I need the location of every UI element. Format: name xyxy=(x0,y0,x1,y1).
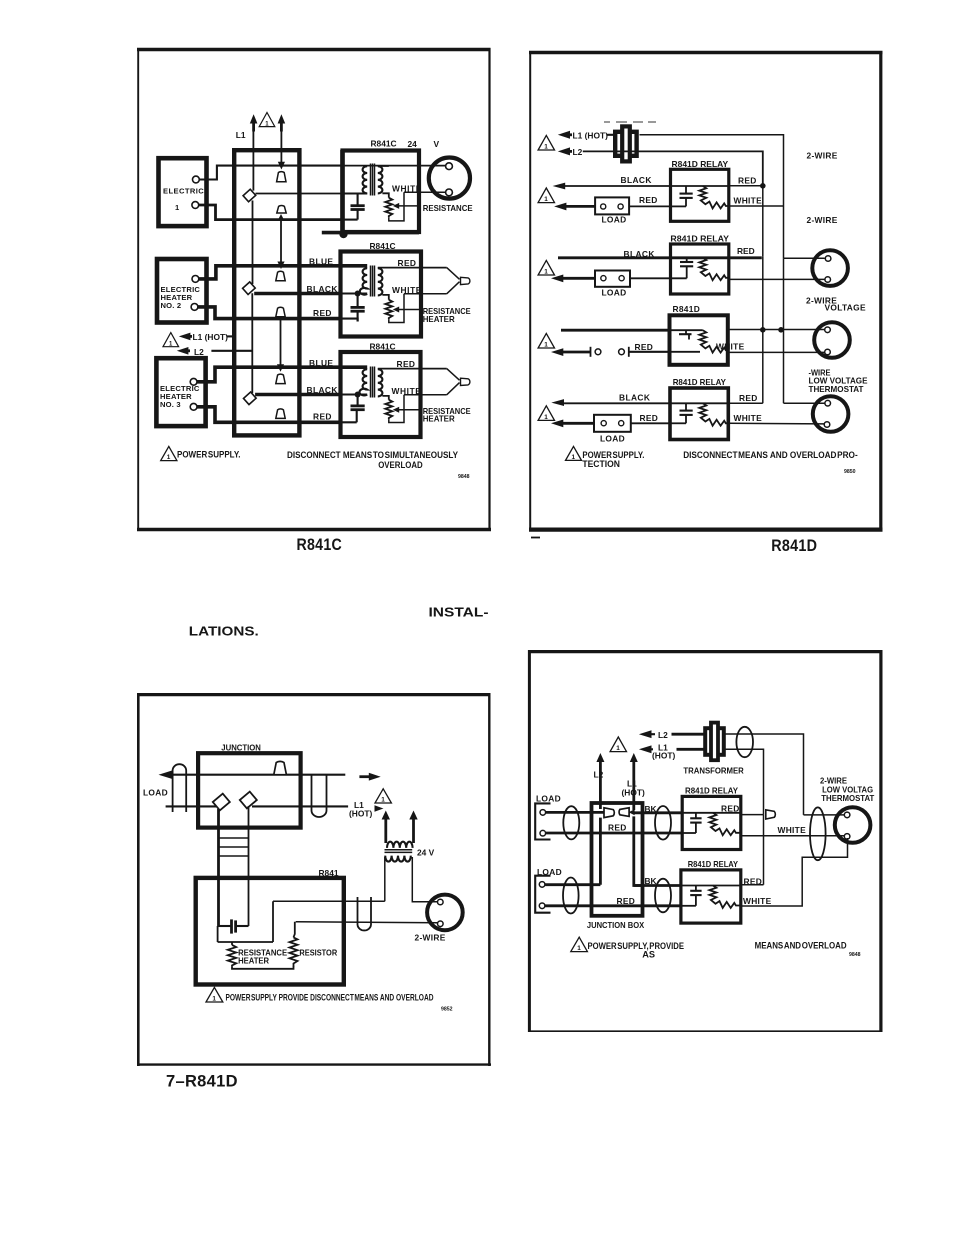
svg-text:WHITE: WHITE xyxy=(392,183,422,193)
relay1 internal red-in wire xyxy=(671,205,687,207)
wire secondary bottom to resistor1 xyxy=(382,193,388,197)
label RESISTANCE HEATER row2 xyxy=(423,306,471,324)
wire L2 to transformer panel4 xyxy=(672,733,705,736)
cable loop thermostat panel4 xyxy=(810,807,826,860)
svg-text:1: 1 xyxy=(572,454,576,461)
svg-text:9852: 9852 xyxy=(441,1007,453,1013)
wire white out row2 xyxy=(404,293,447,295)
load2 upper wire to nut1 drop xyxy=(545,883,600,886)
relay1 p4 internal top wire xyxy=(682,812,741,814)
svg-text:1: 1 xyxy=(544,269,548,276)
transformer T3 core xyxy=(371,367,375,398)
svg-text:RED: RED xyxy=(313,308,332,318)
diagonal wire nut A panel3 xyxy=(213,794,230,811)
svg-text:BLUE: BLUE xyxy=(309,358,333,368)
arrow left top wire xyxy=(159,771,199,779)
label 2-WIRE LOW VOLTAG THERMOSTAT panel4 xyxy=(820,775,875,802)
electric heater no.1 box xyxy=(159,158,207,226)
svg-text:LATIONS.: LATIONS. xyxy=(189,625,259,639)
wire nut at rail A4 xyxy=(766,810,776,819)
capacitor relay2 p4 xyxy=(690,886,701,906)
cable loop load2 panel4 xyxy=(563,878,579,914)
svg-text:TRANSFORMER: TRANSFORMER xyxy=(683,765,743,775)
svg-text:RED: RED xyxy=(608,823,627,833)
svg-text:POWER SUPPLY.: POWER SUPPLY. xyxy=(177,450,241,460)
top wire through junction box xyxy=(198,774,345,776)
svg-text:1: 1 xyxy=(212,996,216,1003)
wire L1 to line transformer xyxy=(607,134,615,136)
cable loop left xyxy=(173,764,187,812)
nut2 drop to BK2 wire xyxy=(634,816,643,885)
internal rail below capacitor xyxy=(218,901,273,942)
transformer T2 primary coil xyxy=(360,268,367,295)
svg-text:WHITE: WHITE xyxy=(716,342,745,352)
thermostat1 terminal lower xyxy=(825,277,831,283)
wire resistor3 bottom loop to white xyxy=(389,395,404,423)
wire L1 to transformer panel4 xyxy=(677,748,705,751)
wire upper out of R841 to transformer xyxy=(273,900,385,902)
heater no.1 terminal T1 xyxy=(193,176,200,183)
wire red out relay3 to thermostat2 upper xyxy=(728,329,825,331)
label 2-WIRE LOW VOLTAGE THERMOSTAT xyxy=(809,368,868,394)
wire rail B4 to thermostat upper xyxy=(804,814,845,816)
svg-text:LOAD: LOAD xyxy=(602,287,627,297)
resistance heater R2 zigzag xyxy=(385,300,392,320)
svg-text:24 V: 24 V xyxy=(417,847,435,857)
wire heater1 lower to row1 bottom xyxy=(199,205,342,220)
wire resistor bottoms join xyxy=(232,966,294,969)
rail B segment to thermostat1 upper xyxy=(784,257,825,259)
svg-text:OVERLOAD: OVERLOAD xyxy=(378,460,423,470)
wire nut on red row3 xyxy=(276,409,285,419)
svg-text:RED: RED xyxy=(617,896,636,906)
cable loop right panel3 xyxy=(312,775,327,817)
svg-text:L1 (HOT): L1 (HOT) xyxy=(193,332,229,342)
rail A4 down to relay2 red xyxy=(763,814,765,884)
label RESISTANCE HEATER row3 xyxy=(423,406,471,424)
warning triangle top xyxy=(538,135,554,150)
wire nut 2 panel4 (points left) xyxy=(619,808,629,817)
svg-text:L2: L2 xyxy=(658,730,668,740)
wire black row1 with arrow xyxy=(553,183,671,190)
wire row1 bottom inside relay to capacitor xyxy=(342,219,358,221)
wire nut 1 panel4 (points right) xyxy=(604,808,614,818)
wiper arrow into resistor1 xyxy=(393,203,421,209)
thermostat terminal lower xyxy=(446,189,453,196)
figure frame panel 3 (7-R841D) xyxy=(137,693,491,1066)
load box row2 xyxy=(595,271,630,287)
svg-text:TECTION: TECTION xyxy=(582,459,620,469)
wire nut A drop to R841 xyxy=(217,809,220,926)
wire blue row2 into relay2 xyxy=(340,264,367,268)
disconnect plug row3 xyxy=(591,347,670,357)
svg-text:R841C: R841C xyxy=(370,241,396,251)
svg-text:R841D: R841D xyxy=(673,304,701,314)
R841D relay 2 box panel4 xyxy=(681,870,741,923)
wire heater3 upper to blue row3 xyxy=(197,367,340,382)
junction dot rail A red1 xyxy=(760,183,766,189)
warning triangle panel4 xyxy=(610,737,626,752)
svg-text:POWER SUPPLY PROVIDE DISCONNEC: POWER SUPPLY PROVIDE DISCONNECT MEANS AN… xyxy=(226,992,434,1002)
wire secondary2 bottom to resistor2 xyxy=(382,295,388,300)
secondary lead left down xyxy=(384,857,386,901)
warning triangle row2 xyxy=(538,260,554,275)
load box row4 xyxy=(594,415,631,432)
svg-text:RED: RED xyxy=(398,258,417,268)
transformer T1 core xyxy=(371,164,375,196)
transformer secondary coil panel3 xyxy=(385,856,411,862)
arrow load row2 xyxy=(551,275,595,283)
wire black row2 from diag nut to relay2 xyxy=(254,292,340,296)
cable loop load1 panel4 xyxy=(563,806,579,839)
diagonal wire nut row3 xyxy=(243,392,256,405)
R841D relay 1 box panel4 xyxy=(682,796,741,849)
warning triangle caption panel2 xyxy=(566,446,582,461)
wire BK1 from L1 drop to relay1 xyxy=(634,811,682,814)
line transformer inner core xyxy=(622,126,630,161)
svg-text:(HOT): (HOT) xyxy=(652,750,675,760)
wire L1 drop to wire nut row1 xyxy=(252,132,254,191)
thermostat3 terminal upper panel3 xyxy=(438,899,444,905)
resistance heater R3 zigzag xyxy=(385,400,392,420)
relay4 internal top wire xyxy=(670,402,728,404)
wire black row4 with arrow xyxy=(551,399,670,406)
capacitor panel3 (horizontal) xyxy=(219,919,249,933)
wire transformer lower out to rail A4 xyxy=(725,749,764,814)
wire load row2 to relay2 capacitor xyxy=(630,277,687,279)
svg-text:(HOT): (HOT) xyxy=(349,808,372,818)
svg-text:ELECTRIC: ELECTRIC xyxy=(163,187,204,196)
load1 upper wire xyxy=(546,811,604,814)
transformer T1 secondary coil xyxy=(378,166,383,193)
wire white out row3 xyxy=(404,394,447,396)
svg-text:WHITE: WHITE xyxy=(734,413,763,423)
thermostat 2 circle 2-wire voltage xyxy=(814,322,850,358)
thermostat2 terminal upper xyxy=(825,327,831,333)
heater no.1 terminal T2 xyxy=(192,202,199,209)
wire secondary3 bottom to resistor3 xyxy=(382,396,388,400)
warning triangle 1 top xyxy=(259,113,275,128)
junction dot black-capacitor row3 xyxy=(355,392,361,398)
arrow L1 hot panel4 xyxy=(639,745,653,753)
svg-text:(HOT): (HOT) xyxy=(622,787,645,797)
arrow L1 hot xyxy=(558,131,572,139)
diagonal wire nut B panel3 xyxy=(240,792,257,809)
svg-text:R841C: R841C xyxy=(370,342,396,352)
transformer T3 primary coil xyxy=(359,369,367,395)
relay3 lower-in internal wire xyxy=(670,351,701,353)
cable rungs between junction and R841 xyxy=(219,838,249,856)
wire blue row3 into relay3 xyxy=(340,365,367,369)
thermostat3 terminal lower panel3 xyxy=(438,921,444,927)
relay coil resistor relay1 L-shape xyxy=(699,186,728,208)
2wire cable flag row2 xyxy=(447,268,470,294)
diagonal wire nut row2 xyxy=(243,282,256,295)
svg-text:WHITE: WHITE xyxy=(734,196,763,206)
capacitor C3 xyxy=(351,395,365,423)
capacitor relay1 p4 xyxy=(690,813,701,833)
svg-text:24: 24 xyxy=(408,139,418,149)
label L1 (HOT) panel3 xyxy=(349,800,372,818)
wire nut on row1 top wire xyxy=(277,172,286,182)
white2 riser path to thermostat lower xyxy=(741,838,848,906)
thermostat terminal upper xyxy=(446,163,453,170)
svg-text:R841D RELAY: R841D RELAY xyxy=(685,785,738,795)
svg-text:WHITE: WHITE xyxy=(392,285,422,295)
capacitor C2 xyxy=(351,294,365,322)
thermostat 1 circle 2-wire xyxy=(812,250,848,286)
wire white out relay4 to thermostat3 lower xyxy=(728,422,824,425)
capacitor relay4 xyxy=(680,403,693,423)
2wire cable flag row3 xyxy=(447,369,470,395)
svg-text:RED: RED xyxy=(721,804,740,814)
thermostat2 terminal lower xyxy=(825,349,831,355)
transformer core panel3 xyxy=(385,850,413,853)
heater no.3 terminal T2 xyxy=(190,403,197,410)
arrow into nut2 from L1 drop xyxy=(629,809,635,815)
warning triangle caption panel3 xyxy=(206,987,223,1002)
svg-text:9848: 9848 xyxy=(458,474,470,480)
svg-text:BK: BK xyxy=(645,804,657,814)
arrow load row1 xyxy=(554,203,595,211)
warning triangle panel3 xyxy=(375,789,391,804)
wire black row3 inside relay xyxy=(340,393,367,395)
wire white out relay1 to rail B xyxy=(729,205,784,207)
rail A down to row4 xyxy=(762,257,764,403)
warning triangle row3 xyxy=(538,333,554,348)
svg-text:BLACK: BLACK xyxy=(307,385,338,395)
svg-text:V: V xyxy=(434,139,440,149)
figure frame panel 2 (R841D) xyxy=(529,51,883,531)
arrow L2 top panel4 xyxy=(639,730,655,738)
svg-text:THERMOSTAT: THERMOSTAT xyxy=(809,384,865,394)
line transformer outer shell xyxy=(615,132,636,156)
svg-text:DISCONNECT MEANS AND OVERLOAD: DISCONNECT MEANS AND OVERLOAD PRO- xyxy=(683,450,858,460)
wire red row1 load to relay xyxy=(629,205,670,207)
svg-text:JUNCTION BOX: JUNCTION BOX xyxy=(587,920,645,930)
thermostat1 terminal upper xyxy=(825,256,831,262)
wire white out relay2 to thermostat1 xyxy=(729,278,825,280)
rail B down to row4 xyxy=(783,330,785,403)
svg-text:1: 1 xyxy=(175,203,180,212)
thermostat p4 terminal lower xyxy=(844,834,850,840)
svg-text:WHITE: WHITE xyxy=(743,896,772,906)
wire red out relay1 p4 to rail xyxy=(741,814,764,816)
svg-text:2-WIRE: 2-WIRE xyxy=(807,215,838,225)
stray mark below panel 2 frame xyxy=(531,537,540,539)
electric heater no.3 box xyxy=(156,358,205,426)
thermostat3 terminal lower xyxy=(824,422,830,428)
wire red out row2 (secondary top) xyxy=(378,267,447,269)
svg-text:L1: L1 xyxy=(236,130,246,140)
wire black row3 from diag nut to relay3 xyxy=(255,393,340,397)
wire nut row1 lower xyxy=(277,205,286,213)
up arrow L1 drop panel4 xyxy=(630,753,638,810)
svg-text:NO. 3: NO. 3 xyxy=(160,400,181,409)
cable loop at transformer panel4 xyxy=(736,727,753,757)
capacitor relay1 xyxy=(680,186,693,206)
junction box panel4 xyxy=(592,803,643,916)
junction dot rail A row3 xyxy=(760,327,766,333)
wire white out relay3 to thermostat2 lower xyxy=(728,351,825,353)
cable loop at R841 exit xyxy=(358,897,372,930)
svg-text:INSTAL-: INSTAL- xyxy=(429,606,489,620)
electric heater no.2 box xyxy=(157,259,207,323)
svg-text:THERMOSTAT: THERMOSTAT xyxy=(821,793,875,803)
junction box bottom edge xyxy=(0,0,1,1)
label RESISTANCE HEATER panel3 xyxy=(238,948,287,966)
transformer T3 secondary coil xyxy=(378,369,383,396)
resistor panel3 zigzag xyxy=(290,922,298,967)
svg-text:RED: RED xyxy=(397,359,416,369)
relay2 p4 internal top wire xyxy=(681,885,741,887)
diagonal wire nut row1 xyxy=(243,189,256,202)
svg-text:1: 1 xyxy=(616,745,620,752)
svg-text:1: 1 xyxy=(544,342,548,349)
wire red out row3 (secondary top) xyxy=(378,368,447,370)
lower wire from left xyxy=(166,805,216,807)
wire black row2 through relay2 to rail A xyxy=(558,256,762,259)
svg-text:R841D: R841D xyxy=(771,537,817,555)
arrow L2 feed xyxy=(177,347,190,355)
wire black row2 inside relay xyxy=(340,292,367,294)
svg-text:LOAD: LOAD xyxy=(602,215,627,225)
wire black row3 into relay3 xyxy=(561,329,670,332)
R841 box xyxy=(196,878,344,985)
svg-text:R841D RELAY: R841D RELAY xyxy=(673,377,727,387)
svg-text:L1 (HOT): L1 (HOT) xyxy=(573,130,609,140)
wire nut drop link row1 to row2 xyxy=(277,214,284,269)
svg-text:RED: RED xyxy=(737,246,755,256)
transformer primary coil panel3 xyxy=(387,842,413,848)
transformer T1 primary coil xyxy=(363,166,368,193)
svg-text:1: 1 xyxy=(381,797,385,804)
transformer arrows up panel3 xyxy=(382,811,390,844)
dashed scan artifact above transformer xyxy=(604,121,656,123)
relay4 internal red-in wire xyxy=(670,422,686,424)
svg-text:LOAD: LOAD xyxy=(143,788,168,798)
rail B continue down xyxy=(783,258,785,330)
wire nut on blue row2 xyxy=(276,271,285,281)
rail B corner into thermostat3 upper xyxy=(784,402,825,404)
R841C relay no.1 box xyxy=(343,151,420,233)
wire heater1 upper to row1 top xyxy=(199,166,342,180)
wire nut drop link row2 to row3 xyxy=(277,317,284,372)
wire white relay1 p4 to thermostat lower xyxy=(741,835,845,837)
warning triangle row1 xyxy=(538,188,554,203)
svg-text:BLUE: BLUE xyxy=(309,257,333,267)
svg-text:RED: RED xyxy=(739,393,758,403)
wire heater3 lower to red row3 xyxy=(197,407,340,423)
wire secondary top to white row1 xyxy=(378,165,389,167)
svg-text:POWER SUPPLY, PROVIDE: POWER SUPPLY, PROVIDE xyxy=(588,941,685,951)
svg-text:1: 1 xyxy=(544,196,548,203)
svg-text:JUNCTION: JUNCTION xyxy=(221,743,261,753)
svg-text:R841D RELAY: R841D RELAY xyxy=(688,859,739,869)
relay3 contact element xyxy=(679,330,692,339)
thermostat circle V xyxy=(429,158,470,199)
svg-text:NO. 2: NO. 2 xyxy=(161,301,182,310)
svg-text:DISCONNECT MEANS TO SIMULTANEO: DISCONNECT MEANS TO SIMULTANEOUSLY xyxy=(287,450,458,460)
relay3 internal wire to resistor top xyxy=(670,329,703,331)
label L1 (HOT) drop xyxy=(622,779,645,798)
svg-text:RED: RED xyxy=(640,413,659,423)
junction box panel3 xyxy=(198,753,301,827)
warning triangle row4 xyxy=(538,406,554,421)
heater no.2 terminal T1 xyxy=(192,276,199,283)
svg-text:R841C: R841C xyxy=(297,536,343,554)
caption POWER SUPPLY TECTION panel2 xyxy=(582,450,644,469)
arrow L1 (HOT) feed xyxy=(179,333,192,341)
label 2-WIRE VOLTAGE xyxy=(806,296,866,313)
nut1 drop to load2 wire xyxy=(599,818,602,885)
wiper arrow into resistor3 xyxy=(393,407,421,413)
line transformer panel4 inner core xyxy=(711,723,718,761)
wire heater2 upper to blue row2 xyxy=(199,266,340,279)
relay1 internal top wire xyxy=(671,185,729,187)
power lead up-arrow left xyxy=(250,114,258,131)
svg-text:L2: L2 xyxy=(594,769,604,779)
svg-text:RED: RED xyxy=(635,342,654,352)
resistance heater panel3 zigzag xyxy=(228,942,236,967)
wire BK2 junction to relay2 xyxy=(634,884,681,887)
wire red row2 inside relay to capacitor xyxy=(340,319,358,322)
wire L2 under transformer to rail A xyxy=(583,151,763,185)
heater no.3 terminal T1 xyxy=(190,378,197,385)
relay coil resistor relay4 L-shape xyxy=(699,403,728,425)
svg-text:RED: RED xyxy=(313,411,332,421)
junction dot relay1 bottom xyxy=(339,230,347,238)
junction dot rail B row3 xyxy=(778,327,784,333)
relay coil resistor relay2 p4 xyxy=(709,886,740,908)
relay coil resistor relay2 L-shape xyxy=(699,258,728,280)
wire L1 from transformer to rail B xyxy=(640,135,784,258)
R841D relay 4 box xyxy=(670,388,728,440)
svg-text:WHITE: WHITE xyxy=(778,825,807,835)
svg-text:2-WIRE: 2-WIRE xyxy=(415,933,446,943)
svg-text:BLACK: BLACK xyxy=(619,392,650,402)
svg-text:HEATER: HEATER xyxy=(423,314,455,324)
transformer T2 secondary coil xyxy=(378,268,383,295)
svg-text:RED: RED xyxy=(738,176,757,186)
junction dot black-capacitor row2 xyxy=(355,291,361,297)
label L1 (HOT) panel4 xyxy=(652,742,675,760)
svg-text:LOAD: LOAD xyxy=(600,433,625,443)
svg-text:9850: 9850 xyxy=(844,469,856,475)
svg-text:AS: AS xyxy=(642,950,655,960)
wire row1 top to R841C no.1 and thermostat xyxy=(342,165,447,167)
svg-text:1: 1 xyxy=(577,945,581,952)
R841D relay 2 box xyxy=(671,244,729,294)
relay coil resistor relay1 p4 xyxy=(709,813,740,835)
arrow load row4 xyxy=(551,420,594,428)
relay1 bottom overshoot wire xyxy=(322,231,419,235)
svg-text:BLACK: BLACK xyxy=(621,175,652,185)
caption POWER SUPPLY panel4 xyxy=(588,941,685,960)
wire resistor2 bottom loop to white xyxy=(389,294,404,323)
wire from nut B right to L1 hot xyxy=(252,805,348,807)
wire red out relay4 to rail A xyxy=(728,402,763,404)
up arrow L2 drop panel4 xyxy=(596,753,604,809)
arrow plug row3 xyxy=(551,348,591,356)
svg-text:VOLTAGE: VOLTAGE xyxy=(825,303,866,313)
arrow right L1 hot xyxy=(375,805,384,812)
cable loop BK1 panel4 xyxy=(655,806,671,840)
R841C relay no.2 box xyxy=(341,252,422,337)
svg-text:MEANS AND OVERLOAD: MEANS AND OVERLOAD xyxy=(755,941,847,951)
load2 lower wire (red) through junction xyxy=(545,904,681,907)
wire nut B drop to R841 xyxy=(248,806,250,926)
